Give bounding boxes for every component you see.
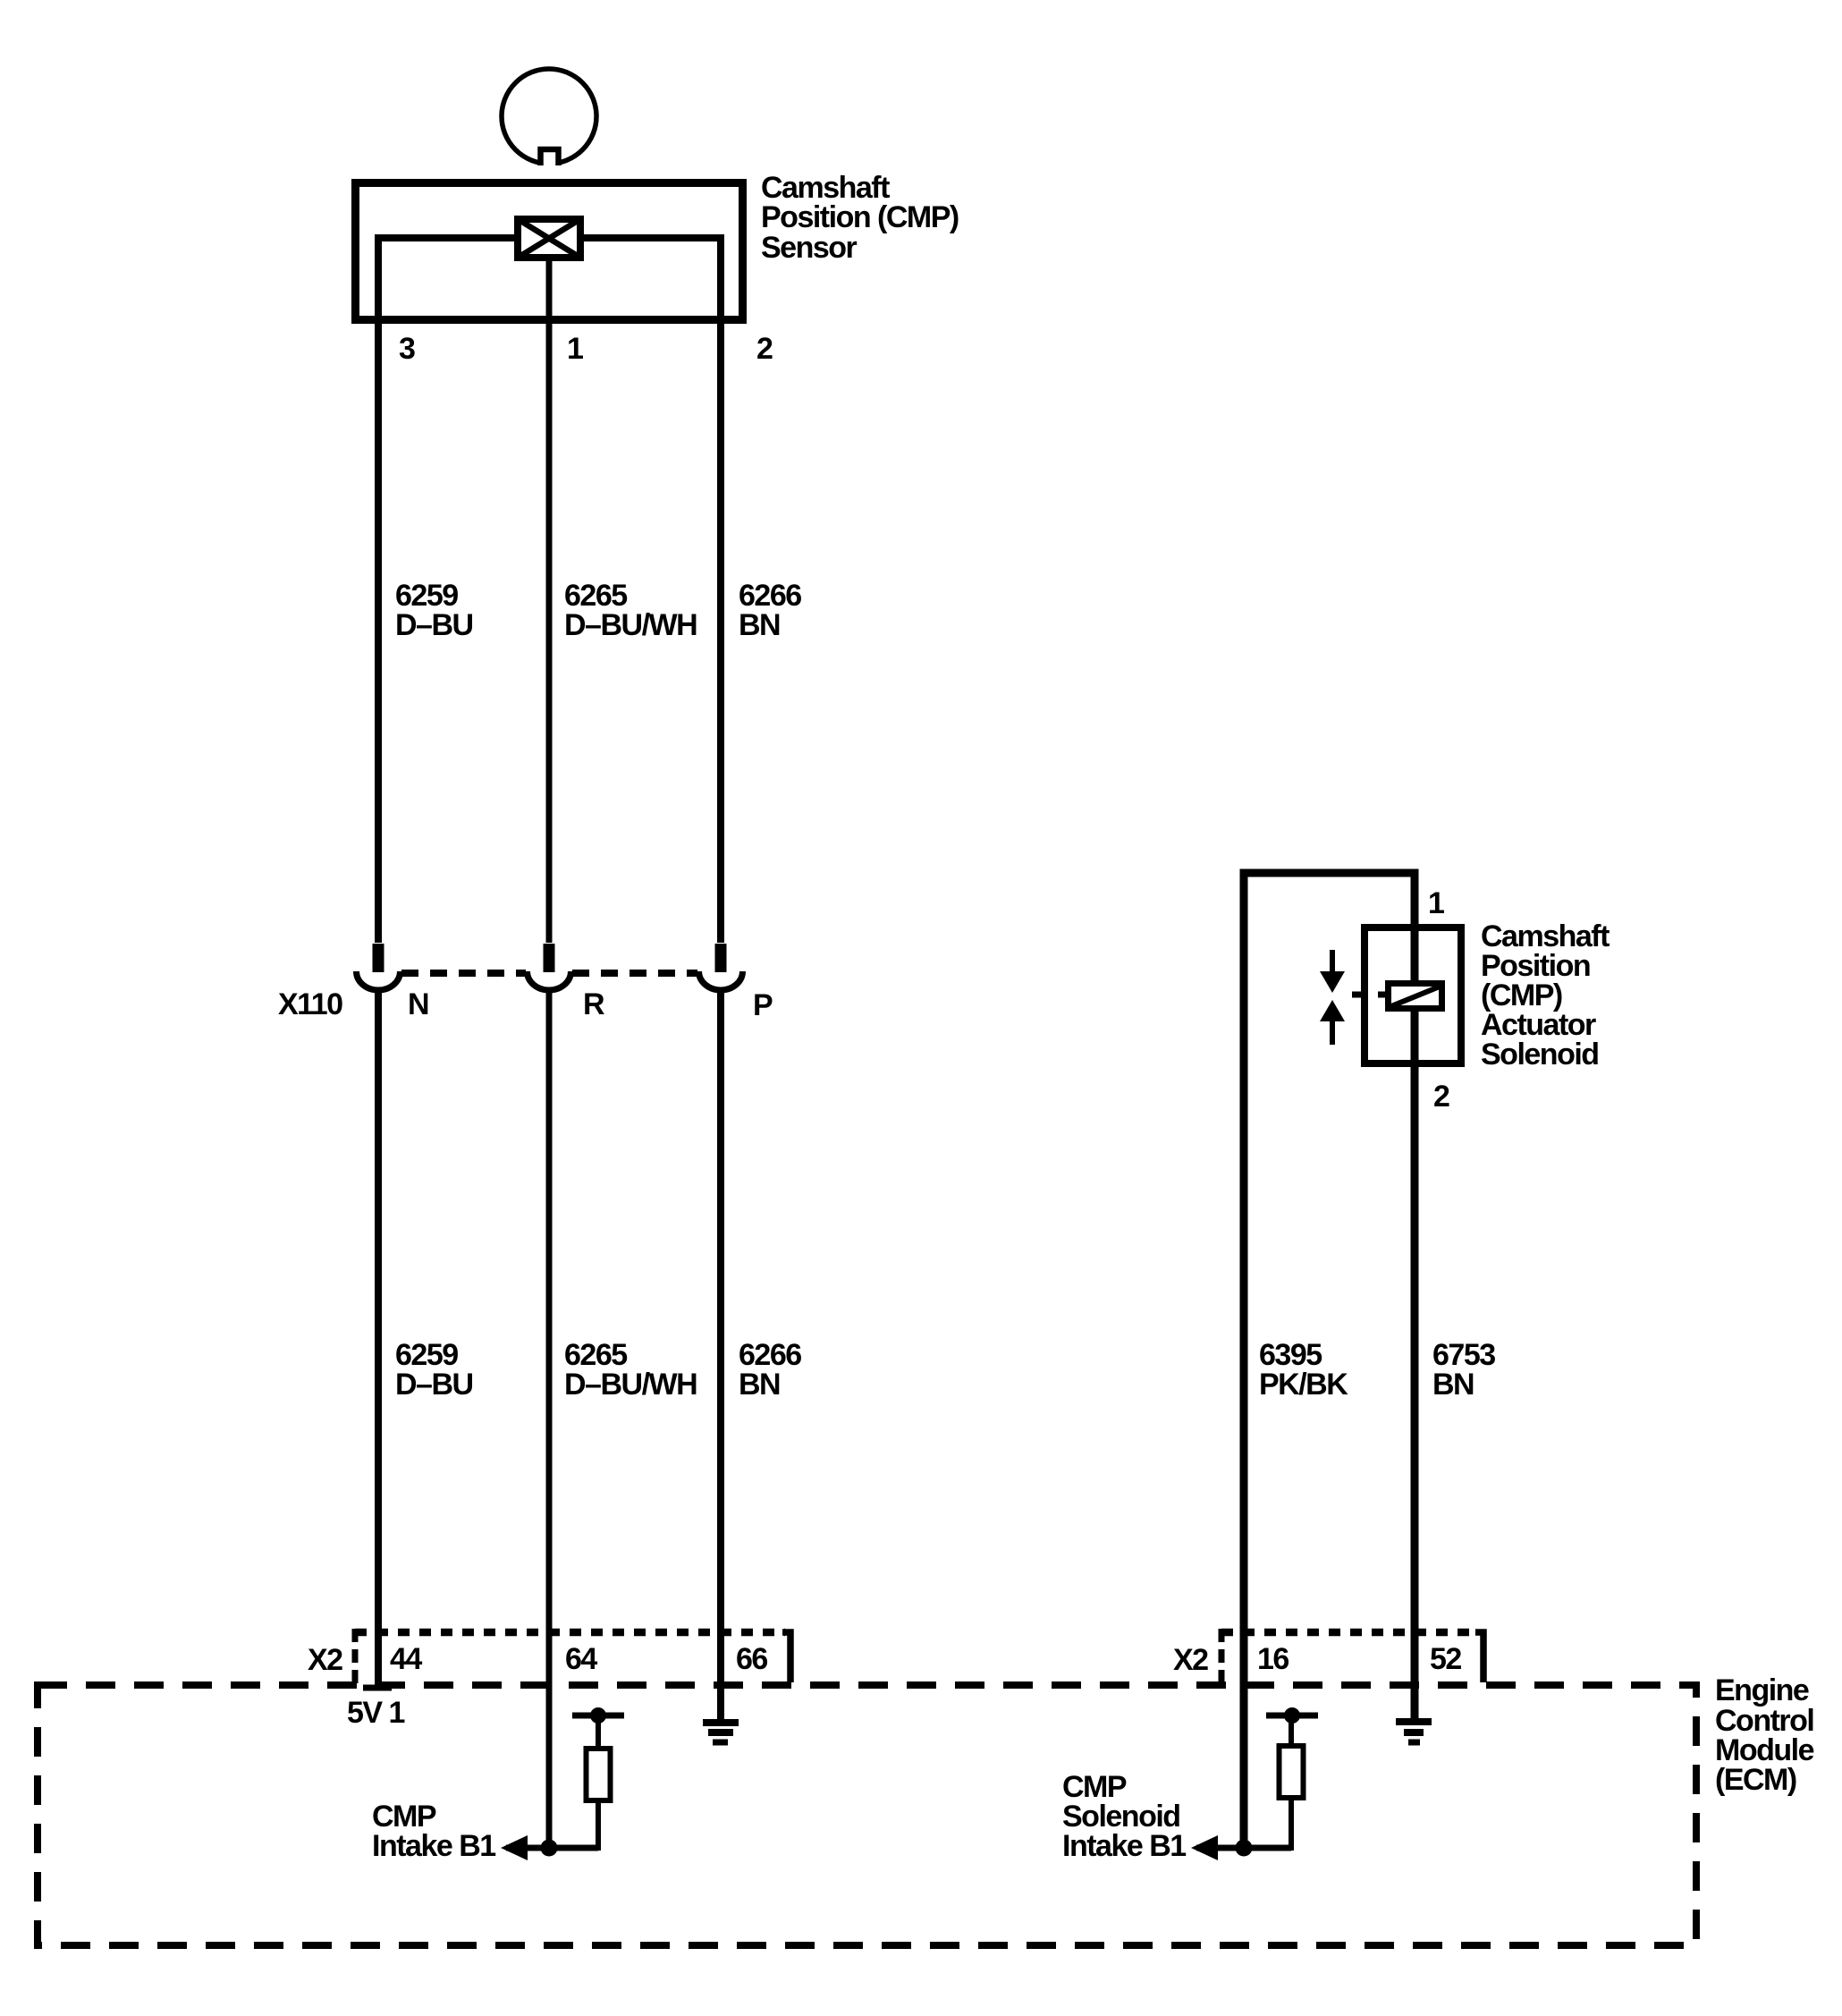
5V rail bar left — [572, 1707, 624, 1724]
wire: pin 3 vertical — [375, 234, 382, 943]
label R — [583, 987, 604, 1021]
svg-text:D–BU: D–BU — [395, 608, 473, 642]
svg-text:44: 44 — [390, 1642, 422, 1676]
svg-text:N: N — [408, 987, 428, 1021]
wire 44 terminal foot — [363, 1685, 392, 1691]
bracket right connector — [1475, 1632, 1483, 1682]
label P — [753, 988, 773, 1022]
label 1 (solenoid pin) — [1428, 886, 1444, 920]
label: Engine Control Module (ECM) — [1715, 1673, 1814, 1797]
label CMP Solenoid Intake B1 — [1062, 1770, 1186, 1863]
wire 6753 vertical (pin 52 side) — [1411, 1009, 1419, 1719]
wire label 6265 D-BU/WH (lower) — [564, 1338, 697, 1402]
svg-text:D–BU/WH: D–BU/WH — [564, 608, 697, 642]
wire label 6266 BN (lower) — [739, 1338, 801, 1402]
label X2 left — [308, 1643, 342, 1677]
svg-text:D–BU: D–BU — [395, 1368, 473, 1402]
svg-text:3: 3 — [399, 332, 415, 366]
svg-text:BN: BN — [739, 1368, 780, 1402]
svg-text:52: 52 — [1430, 1642, 1461, 1676]
ECM connector row left (dotted) — [355, 1629, 785, 1637]
wire 6266 lower segment — [717, 987, 724, 1719]
actuator arrows symbol — [1320, 950, 1345, 1045]
connector X110 pin P — [699, 944, 743, 990]
ground (pin 52) — [1396, 1722, 1432, 1742]
label X110 — [278, 987, 342, 1021]
svg-text:P: P — [753, 988, 773, 1022]
wire label 6266 BN (upper) — [739, 579, 801, 642]
X2 vertical dashed left — [352, 1629, 359, 1685]
sensor element crossed box — [518, 219, 580, 258]
svg-text:64: 64 — [565, 1642, 597, 1676]
svg-text:BN: BN — [1432, 1368, 1474, 1402]
wire: pin 1 vertical — [546, 261, 553, 943]
ECM connector row right (dotted) — [1221, 1629, 1474, 1637]
svg-text:X2: X2 — [1173, 1643, 1208, 1677]
wire label 6395 PK/BK — [1259, 1338, 1348, 1402]
Engine Control Module (ECM) dashed box — [38, 1685, 1696, 1945]
svg-text:2: 2 — [1433, 1080, 1449, 1114]
label: Camshaft Position (CMP) Sensor — [761, 171, 959, 265]
svg-text:BN: BN — [739, 608, 780, 642]
svg-text:X110: X110 — [278, 987, 342, 1021]
svg-text:66: 66 — [736, 1642, 767, 1676]
wire label 6259 D-BU (lower) — [395, 1338, 473, 1402]
label 2 (solenoid pin) — [1433, 1080, 1449, 1114]
label 5V 1 — [347, 1696, 405, 1730]
svg-text:R: R — [583, 987, 604, 1021]
wire label 6259 D-BU (upper) — [395, 579, 473, 642]
pin 44 label — [390, 1642, 422, 1676]
label CMP Intake B1 — [372, 1800, 495, 1863]
svg-text:X2: X2 — [308, 1643, 342, 1677]
pin 64 label — [565, 1642, 597, 1676]
CMP Intake B1 output wire + arrow — [501, 1835, 598, 1860]
connector X110 pin N — [357, 944, 401, 990]
pin 16 label — [1257, 1642, 1289, 1676]
wire 6395 vertical (pin 16 side) — [1240, 869, 1248, 1849]
svg-text:Sensor: Sensor — [761, 231, 858, 265]
svg-text:Intake B1: Intake B1 — [1062, 1829, 1186, 1863]
pin 52 label — [1430, 1642, 1461, 1676]
connector X110 dashed line — [401, 970, 697, 977]
solenoid mechanical stub — [1352, 992, 1365, 998]
wire: internal horizontal — [378, 234, 721, 241]
solenoid coil symbol — [1378, 984, 1442, 1009]
resistor (pull-up, left) — [587, 1715, 611, 1851]
right circuit: loop wire top — [1244, 869, 1415, 877]
svg-text:PK/BK: PK/BK — [1259, 1368, 1348, 1402]
svg-text:1: 1 — [567, 332, 583, 366]
resistor (pull-up, right) — [1280, 1715, 1304, 1851]
wire label 6753 BN — [1432, 1338, 1495, 1402]
CMP Solenoid Intake B1 output wire + arrow — [1191, 1835, 1291, 1860]
label N — [408, 987, 428, 1021]
wire 6265 lower segment — [546, 987, 553, 1848]
label: Camshaft Position (CMP) Actuator Solenoid — [1481, 919, 1610, 1072]
svg-text:(ECM): (ECM) — [1715, 1763, 1796, 1797]
pin number 1 — [567, 332, 583, 366]
Camshaft Position (CMP) Sensor box — [356, 183, 743, 320]
svg-text:Solenoid: Solenoid — [1481, 1038, 1599, 1072]
svg-text:Engine: Engine — [1715, 1673, 1809, 1707]
pin 66 label — [736, 1642, 767, 1676]
svg-text:5V 1: 5V 1 — [347, 1696, 405, 1730]
5V rail bar right — [1266, 1707, 1318, 1724]
svg-text:D–BU/WH: D–BU/WH — [564, 1368, 697, 1402]
bracket left connector — [782, 1632, 790, 1682]
wire: pin 2 vertical — [717, 234, 724, 943]
CMP actuator solenoid box — [1365, 928, 1461, 1063]
CMP sensor circle symbol — [502, 69, 596, 170]
wire label 6265 D-BU/WH (upper) — [564, 579, 697, 642]
svg-text:Position (CMP): Position (CMP) — [761, 200, 959, 234]
ground (pin 66) — [703, 1723, 739, 1742]
connector X110 pin R — [528, 944, 571, 990]
pin number 2 — [756, 332, 773, 366]
wire 6259 lower segment — [375, 987, 382, 1685]
X2 vertical dashed right — [1219, 1629, 1225, 1685]
svg-text:Intake B1: Intake B1 — [372, 1829, 495, 1863]
label X2 right — [1173, 1643, 1208, 1677]
svg-text:2: 2 — [756, 332, 773, 366]
svg-text:1: 1 — [1428, 886, 1444, 920]
wire from loop to solenoid pin 1 — [1411, 869, 1419, 985]
pin number 3 — [399, 332, 415, 366]
svg-text:16: 16 — [1257, 1642, 1289, 1676]
